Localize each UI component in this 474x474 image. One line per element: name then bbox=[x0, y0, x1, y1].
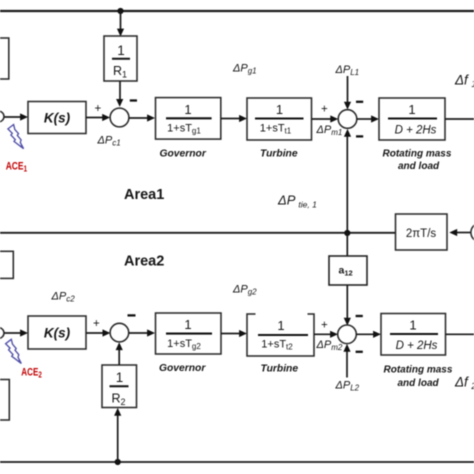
wire summing junction 2a to Governor2 bbox=[129, 332, 149, 334]
sign minus a12 into 2b bbox=[356, 315, 363, 317]
block B2 bias (cropped at left edge, area2 upper) bbox=[0, 251, 13, 278]
block a12 bbox=[329, 256, 367, 285]
wire K(s) to summing junction 1a bbox=[86, 117, 104, 119]
wire from top line down into 1/R1 bbox=[120, 11, 122, 30]
wire ΔPL2 up into summing junction 2b bbox=[346, 351, 348, 378]
svg-text:Area1: Area1 bbox=[124, 187, 164, 203]
block cropped at left edge, area2 lower bbox=[0, 380, 9, 421]
block B1 bias (cropped at left edge, area1) bbox=[0, 38, 9, 79]
svg-text:+: + bbox=[321, 104, 328, 116]
wire Turbine1 to summing junction 1b bbox=[312, 118, 332, 120]
svg-text:K(s): K(s) bbox=[44, 326, 71, 341]
sign minus at summing junction 2a bbox=[128, 314, 136, 316]
svg-text:1: 1 bbox=[184, 317, 191, 332]
block controller K(s) area1 bbox=[28, 102, 86, 134]
svg-text:D + 2Hs: D + 2Hs bbox=[395, 125, 437, 137]
svg-text:and load: and load bbox=[398, 378, 440, 389]
wire bottom line up into 1/R2 bbox=[117, 415, 119, 463]
wire a12 down into summing junction 2b bbox=[346, 285, 348, 319]
wire top feedback line (Δf1 to 1/R1 and B1) bbox=[0, 10, 474, 12]
lightning bolt icon area2 bbox=[6, 339, 22, 363]
svg-text:+: + bbox=[95, 103, 102, 115]
sign minus ΔPL2 bbox=[356, 351, 363, 353]
wire rotating mass 2 output to right edge (Δf2) bbox=[446, 333, 474, 335]
svg-text:1: 1 bbox=[117, 43, 125, 58]
sign minus ΔPL1 bbox=[356, 101, 363, 103]
wire from tie summing circle into 2πT/s bbox=[456, 232, 471, 234]
node junction dot on bottom line bbox=[115, 459, 121, 465]
sign minus tie-line into 1b bbox=[356, 135, 363, 137]
svg-text:+: + bbox=[321, 320, 328, 332]
wire ACE1 connector to K(s) area1 bbox=[4, 116, 21, 118]
node ACE2 input connector (cropped circle at left edge) bbox=[0, 328, 4, 339]
svg-text:1: 1 bbox=[408, 102, 415, 117]
svg-text:and load: and load bbox=[398, 161, 440, 172]
block controller K(s) area2 bbox=[28, 316, 86, 349]
wire summing junction 1b to rotating mass 1 bbox=[357, 118, 373, 120]
wire bottom feedback line (Δf2 to 1/R2 and B2) bbox=[0, 461, 474, 463]
wire Governor1 to Turbine1 bbox=[221, 118, 240, 120]
summing junction 1a bbox=[110, 108, 129, 127]
block rotating mass and load 2: 1/(D+2Hs) bbox=[381, 314, 446, 356]
wire ΔPL1 down into summing junction 1b bbox=[347, 76, 349, 103]
svg-text:D + 2Hs: D + 2Hs bbox=[396, 340, 438, 352]
wire tie-line horizontal (2πT/s output to left edge) bbox=[0, 232, 396, 234]
summing junction tie (cropped at right edge) bbox=[471, 223, 474, 242]
block Turbine1 1/(1+sTt1) bbox=[247, 98, 312, 140]
svg-text:1: 1 bbox=[116, 370, 124, 385]
svg-text:Governor: Governor bbox=[159, 363, 206, 374]
block 1/R2 bbox=[102, 365, 137, 408]
svg-text:+: + bbox=[93, 318, 100, 330]
block Turbine2 1/(1+sTt2) with broken top edge bbox=[247, 314, 314, 356]
node junction dot on top line bbox=[117, 8, 123, 14]
wire summing junction 1a to Governor1 bbox=[129, 117, 149, 119]
wire Turbine2 to summing junction 2b bbox=[314, 333, 332, 335]
summing junction 2b bbox=[338, 325, 357, 344]
svg-text:1: 1 bbox=[409, 318, 416, 333]
wire K(s)2 to summing junction 2a bbox=[86, 332, 104, 334]
svg-text:Rotating mass: Rotating mass bbox=[384, 365, 453, 376]
svg-text:Turbine: Turbine bbox=[261, 364, 299, 375]
wire tie-line down into a12 bbox=[346, 233, 348, 256]
svg-text:2πT/s: 2πT/s bbox=[406, 228, 437, 240]
svg-text:Turbine: Turbine bbox=[260, 149, 298, 160]
summing junction 1b bbox=[338, 110, 357, 129]
wire tie-line up into summing junction 1b bbox=[346, 136, 348, 233]
block 2πT/s bbox=[396, 214, 448, 250]
svg-text:Governor: Governor bbox=[160, 149, 207, 160]
wire 1/R2 up into summing junction 2a bbox=[118, 349, 120, 365]
wire rotating mass 1 output to right edge (Δf1) bbox=[445, 118, 474, 120]
svg-text:Rotating mass: Rotating mass bbox=[383, 149, 452, 160]
svg-text:Area2: Area2 bbox=[124, 254, 164, 270]
svg-text:K(s): K(s) bbox=[44, 111, 71, 126]
lightning bolt icon area1 bbox=[8, 125, 24, 149]
block Governor1 1/(1+sTg1) bbox=[156, 98, 221, 140]
block Governor2 1/(1+sTg2) bbox=[156, 313, 222, 354]
wire from 1/R1 down into summing junction 1a bbox=[119, 81, 121, 100]
block rotating mass and load 1: 1/(D+2Hs) bbox=[379, 98, 445, 140]
sign minus at summing junction 1a bbox=[130, 99, 137, 101]
node ACE1 input connector (cropped circle at left edge) bbox=[0, 111, 4, 122]
wire Governor2 to Turbine2 bbox=[221, 333, 240, 335]
wire summing junction 2b to rotating mass 2 bbox=[356, 333, 374, 335]
wire ACE2 connector to K(s) area2 bbox=[4, 332, 21, 334]
node junction dot on tie-line bbox=[344, 230, 350, 236]
svg-text:1: 1 bbox=[184, 102, 191, 117]
svg-text:1: 1 bbox=[277, 318, 284, 333]
block 1/R1 bbox=[104, 36, 137, 81]
summing junction 2a bbox=[110, 323, 129, 342]
svg-text:1: 1 bbox=[276, 102, 283, 117]
